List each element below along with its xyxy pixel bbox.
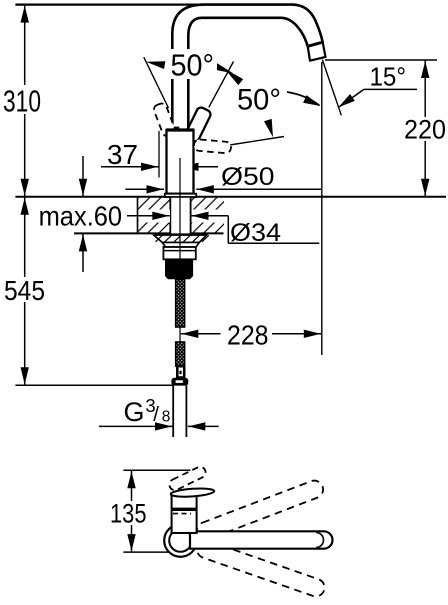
svg-text:Ø50: Ø50: [221, 163, 275, 191]
svg-text:8: 8: [162, 409, 171, 426]
svg-text:/: /: [153, 403, 159, 426]
svg-text:max.60: max.60: [39, 201, 123, 232]
svg-text:50°: 50°: [171, 48, 215, 83]
svg-text:15°: 15°: [370, 62, 407, 92]
svg-text:545: 545: [4, 275, 45, 306]
svg-text:Ø34: Ø34: [230, 219, 281, 247]
svg-text:310: 310: [3, 83, 41, 118]
svg-text:37: 37: [107, 139, 138, 170]
svg-text:50°: 50°: [237, 84, 281, 117]
svg-text:135: 135: [110, 499, 147, 529]
svg-text:220: 220: [404, 115, 446, 145]
svg-text:228: 228: [227, 320, 269, 351]
svg-text:G: G: [124, 397, 145, 427]
